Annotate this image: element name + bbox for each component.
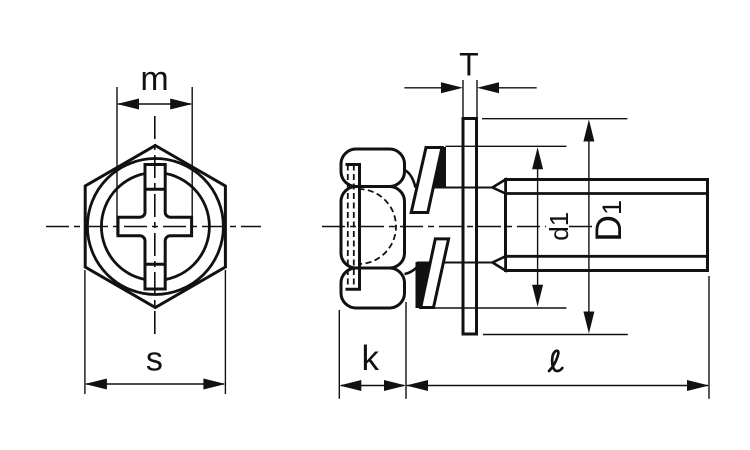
hex head side: top band — [341, 149, 405, 187]
neck fillet bottom — [405, 263, 422, 274]
D1 extension line top — [482, 118, 627, 120]
d1 dimension line — [537, 168, 539, 286]
spring washer bottom piece — [421, 239, 449, 308]
spring washer bottom section black — [416, 263, 430, 308]
D1 extension line bottom — [483, 334, 628, 336]
l dimension line — [407, 385, 708, 387]
spring washer top section black — [433, 148, 445, 188]
l arrowhead right — [687, 380, 709, 391]
flat washer — [463, 119, 477, 335]
svg-text:m: m — [140, 60, 168, 98]
svg-text:T: T — [459, 47, 479, 83]
recess hidden line 1 — [347, 165, 349, 290]
k arrowhead right — [384, 380, 406, 391]
recess hidden line 2 — [353, 165, 355, 290]
m arrowhead right — [170, 99, 192, 110]
D1 arrowhead top — [583, 120, 594, 142]
T dimension line right — [499, 87, 537, 89]
d1 extension line top — [446, 145, 567, 147]
washer circle (outer) — [87, 159, 223, 295]
recess step line top — [145, 188, 165, 191]
thread runout tip top — [493, 180, 506, 194]
label l (script ell) — [549, 351, 562, 371]
d1 extension line bottom — [434, 307, 567, 309]
T arrowhead right (points left) — [477, 82, 499, 93]
recess step line bottom — [145, 263, 165, 266]
neck fillet top — [405, 170, 416, 188]
recess side rectangle (solid caps + right edge) — [346, 165, 360, 290]
thread root line top — [506, 192, 708, 195]
s extension line left — [84, 270, 86, 394]
shank line top (through washers) — [416, 187, 493, 189]
s extension line right — [224, 270, 226, 394]
l arrowhead left — [406, 380, 428, 391]
k extension line left — [338, 310, 340, 399]
d1 arrowhead bottom — [532, 285, 543, 307]
spring washer top piece — [411, 148, 442, 213]
m extension line right — [191, 87, 193, 235]
svg-text:d1: d1 — [544, 212, 574, 241]
hidden cone dome (dashed arc) — [359, 189, 397, 264]
center line horizontal (side view) — [322, 226, 546, 228]
T extension line right — [476, 80, 478, 117]
s arrowhead right — [203, 379, 225, 390]
center line vertical (front view) — [154, 116, 156, 337]
m extension line left — [116, 87, 118, 235]
d1 arrowhead top — [532, 147, 543, 169]
T dimension line left — [404, 87, 441, 89]
svg-text:s: s — [146, 341, 163, 379]
m arrowhead left — [117, 99, 139, 110]
thread shank outline — [506, 180, 708, 271]
D1 dimension line — [588, 140, 590, 312]
phillips cross recess — [118, 165, 192, 290]
center line horizontal (front view) — [41, 226, 261, 228]
k arrowhead left — [339, 380, 361, 391]
hex head outline — [85, 146, 225, 308]
shank line bottom (through washers) — [417, 262, 493, 264]
thread runout tip bottom — [493, 256, 506, 270]
hex head side: middle band — [341, 187, 405, 269]
hex head side: bottom band — [341, 268, 405, 308]
k dimension line — [341, 385, 404, 387]
D1 arrowhead bottom — [583, 312, 594, 334]
s arrowhead left — [85, 379, 107, 390]
T arrowhead left (points right) — [441, 82, 463, 93]
thread root line bottom — [506, 255, 708, 258]
m dimension line — [118, 103, 191, 105]
s dimension line — [86, 383, 224, 385]
T extension line left — [462, 80, 464, 117]
chamfer circle (inner) — [101, 173, 209, 281]
svg-text:k: k — [362, 339, 380, 378]
k / l extension line middle — [405, 302, 407, 399]
l extension line right — [708, 276, 710, 399]
